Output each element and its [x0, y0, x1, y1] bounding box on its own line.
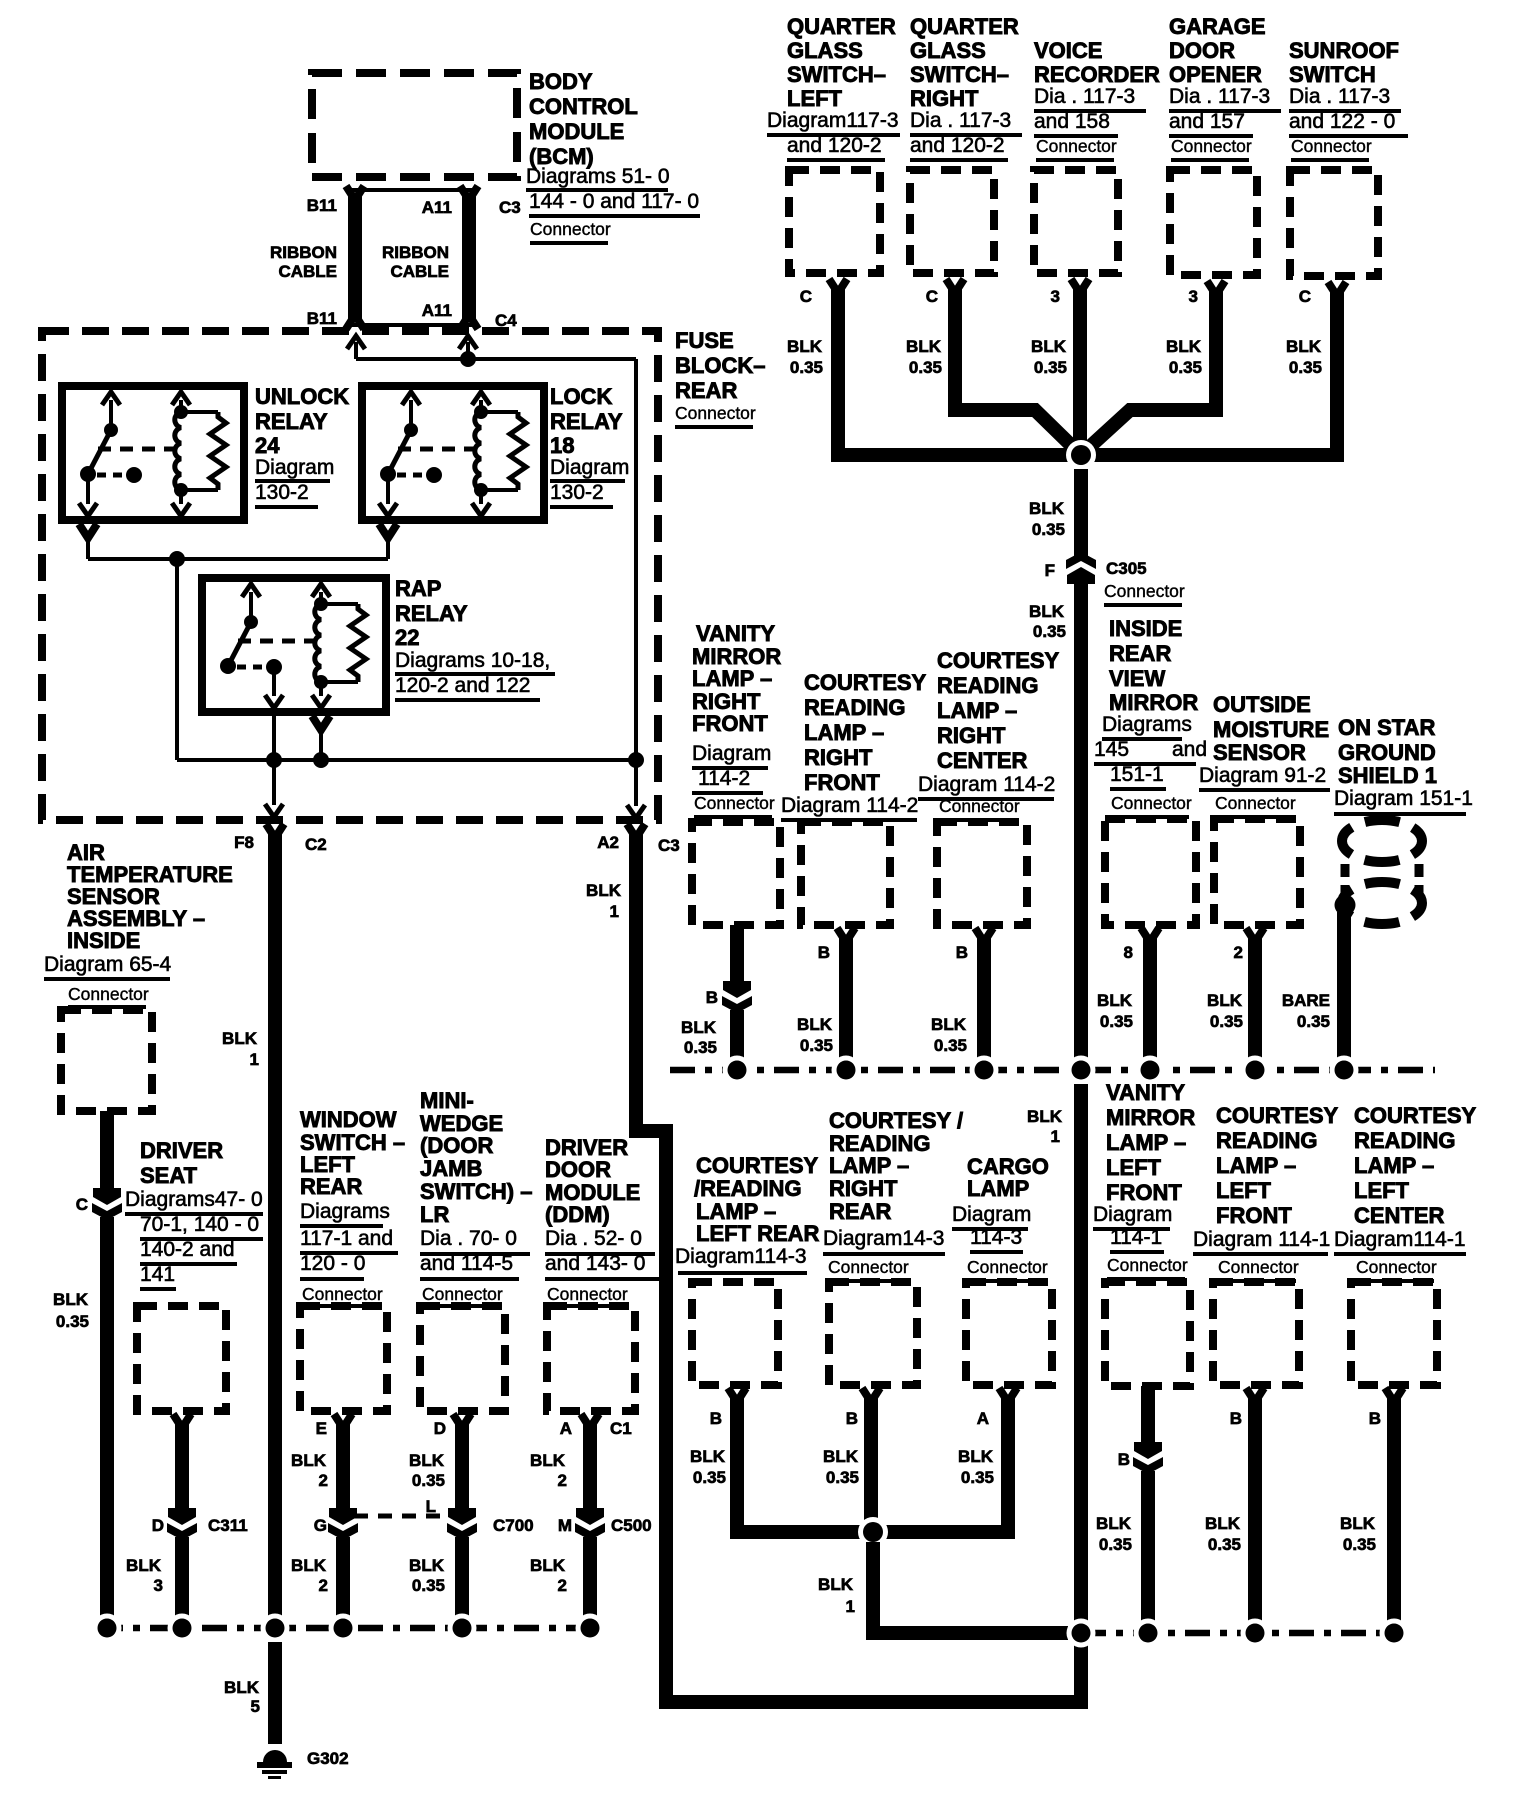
- rap relay 22: [202, 578, 386, 712]
- svg-text:COURTESY: COURTESY: [937, 648, 1060, 673]
- svg-text:Connector: Connector: [1107, 1255, 1188, 1275]
- svg-text:B: B: [846, 1409, 858, 1428]
- wire label BLK 2 (window upper): [291, 1451, 328, 1490]
- svg-text:0.35: 0.35: [1343, 1535, 1376, 1554]
- svg-text:C: C: [800, 287, 812, 306]
- svg-text:Connector: Connector: [1171, 136, 1252, 156]
- svg-text:BLK: BLK: [797, 1015, 833, 1034]
- svg-text:0.35: 0.35: [934, 1036, 967, 1055]
- svg-text:RIGHT: RIGHT: [804, 745, 873, 770]
- svg-text:2: 2: [1234, 943, 1243, 962]
- svg-text:BLK: BLK: [823, 1447, 859, 1466]
- svg-text:Connector: Connector: [694, 793, 775, 813]
- svg-text:1: 1: [610, 902, 619, 921]
- svg-text:A: A: [977, 1409, 989, 1428]
- svg-text:24: 24: [255, 433, 280, 458]
- svg-text:DOOR: DOOR: [545, 1157, 611, 1182]
- cargo lamp label: [952, 1154, 1049, 1283]
- BCM label text: [526, 69, 700, 245]
- junction node bus1 courtesy RC: [970, 1056, 999, 1085]
- wire courtesy LC to bus2: [1385, 1388, 1403, 1622]
- pin C ATS: [76, 1195, 88, 1214]
- svg-text:141: 141: [140, 1263, 175, 1286]
- svg-text:BLK: BLK: [931, 1015, 967, 1034]
- svg-text:Connector: Connector: [422, 1284, 503, 1304]
- svg-text:C: C: [926, 287, 938, 306]
- svg-text:LAMP –: LAMP –: [804, 720, 884, 745]
- svg-text:BLK: BLK: [530, 1451, 566, 1470]
- svg-text:SEAT: SEAT: [140, 1163, 198, 1188]
- wire label BLK 0.35 (mini lower): [409, 1556, 445, 1595]
- connector vanity mirror lamp right front: [692, 822, 780, 925]
- svg-text:Diagram14-3: Diagram14-3: [823, 1227, 944, 1250]
- junction node at C4 drop: [460, 351, 476, 367]
- wire mini-wedge to C700: [453, 1414, 471, 1510]
- svg-text:C: C: [76, 1195, 88, 1214]
- svg-text:BLK: BLK: [530, 1556, 566, 1575]
- fuse block label: [675, 328, 765, 429]
- svg-text:0.35: 0.35: [693, 1468, 726, 1487]
- ribbon cable (BCM to fuse block): [346, 186, 478, 329]
- svg-text:Diagram 65-4: Diagram 65-4: [44, 953, 172, 976]
- svg-text:0.35: 0.35: [1032, 520, 1065, 539]
- svg-text:G302: G302: [307, 1749, 349, 1768]
- svg-text:RIGHT: RIGHT: [829, 1176, 898, 1201]
- wire label BLK 0.35 above C305: [1029, 499, 1065, 539]
- label L: [426, 1497, 436, 1516]
- wire bus to G302: [268, 1642, 282, 1744]
- on star ground shield 1 label: [1334, 715, 1473, 816]
- svg-text:MODULE: MODULE: [529, 119, 624, 144]
- svg-text:JAMB: JAMB: [420, 1156, 482, 1181]
- svg-text:2: 2: [558, 1471, 567, 1490]
- svg-text:Diagram117-3: Diagram117-3: [767, 109, 899, 132]
- svg-text:FRONT: FRONT: [1106, 1180, 1182, 1205]
- wire label BLK 0.35 (vanity LF): [1096, 1514, 1132, 1554]
- junction node bus2-right courtesy LF: [1241, 1619, 1270, 1648]
- junction node three lamp wires: [858, 1517, 888, 1547]
- label C700: [493, 1516, 534, 1535]
- svg-text:GLASS: GLASS: [787, 38, 863, 63]
- svg-text:RIGHT: RIGHT: [937, 723, 1006, 748]
- outside moisture sensor label: [1199, 692, 1330, 819]
- ground bus 2 right (dash-dot): [1081, 1630, 1404, 1637]
- junction node bus1 main: [1067, 1056, 1096, 1085]
- svg-text:BODY: BODY: [529, 69, 593, 94]
- svg-text:MIRROR: MIRROR: [1109, 690, 1198, 715]
- wire mini-wedge to bus: [455, 1537, 469, 1620]
- svg-text:Diagram: Diagram: [1093, 1203, 1172, 1226]
- svg-text:(DDM): (DDM): [545, 1202, 610, 1227]
- svg-text:B: B: [710, 1409, 722, 1428]
- svg-text:BLK: BLK: [224, 1678, 260, 1697]
- svg-text:BLK: BLK: [1029, 499, 1065, 518]
- svg-text:/READING: /READING: [694, 1176, 802, 1201]
- svg-text:MOISTURE: MOISTURE: [1213, 717, 1329, 742]
- svg-text:G: G: [314, 1516, 327, 1535]
- junction node bus1 shield: [1330, 1056, 1359, 1085]
- connector quarter glass switch left: [789, 170, 880, 273]
- svg-text:Connector: Connector: [530, 219, 611, 239]
- ribbon cable labels: [270, 196, 521, 330]
- svg-text:COURTESY: COURTESY: [696, 1153, 819, 1178]
- wire vanity LF to inline connector B: [1141, 1386, 1155, 1444]
- svg-text:Connector: Connector: [1036, 136, 1117, 156]
- svg-text:BLK: BLK: [1207, 991, 1243, 1010]
- svg-text:0.35: 0.35: [412, 1576, 445, 1595]
- wire label BLK 0.35 (courtesy LF): [1205, 1514, 1241, 1554]
- pin B courtesy LF: [1230, 1409, 1242, 1428]
- junction node bus2-right main: [1067, 1619, 1096, 1648]
- svg-text:Connector: Connector: [1111, 793, 1192, 813]
- svg-text:F8: F8: [234, 833, 254, 852]
- pin 8 IRVM: [1124, 943, 1133, 962]
- svg-text:DRIVER: DRIVER: [140, 1138, 223, 1163]
- svg-text:RAP: RAP: [395, 576, 441, 601]
- labels A2 C3: [597, 833, 679, 855]
- svg-text:Dia . 70- 0: Dia . 70- 0: [420, 1227, 517, 1250]
- junction node rap switch leg: [266, 752, 282, 768]
- svg-text:Diagram 114-1: Diagram 114-1: [1193, 1228, 1330, 1251]
- wire label BLK 1 (main): [1027, 1107, 1063, 1146]
- svg-text:LEFT: LEFT: [787, 86, 843, 111]
- connector inside rear view mirror: [1105, 819, 1196, 925]
- svg-text:0.35: 0.35: [961, 1468, 994, 1487]
- svg-text:B11: B11: [307, 196, 337, 215]
- svg-text:BLOCK–: BLOCK–: [675, 353, 765, 378]
- svg-text:0.35: 0.35: [1099, 1535, 1132, 1554]
- svg-text:C311: C311: [208, 1516, 248, 1535]
- svg-text:and 158: and 158: [1034, 110, 1110, 133]
- svg-text:COURTESY: COURTESY: [1216, 1103, 1339, 1128]
- pin C sunroof switch: [1299, 287, 1311, 306]
- labels D / C311: [152, 1516, 248, 1535]
- svg-text:E: E: [316, 1419, 327, 1438]
- svg-text:and 143- 0: and 143- 0: [545, 1252, 645, 1275]
- svg-text:CABLE: CABLE: [278, 262, 337, 281]
- wire bus from B11/C4 to right side: [356, 359, 636, 761]
- svg-text:C2: C2: [305, 835, 327, 854]
- svg-text:FRONT: FRONT: [1216, 1203, 1292, 1228]
- wire label BLK 0.35 (IRVM): [1097, 991, 1133, 1031]
- svg-text:Diagrams: Diagrams: [300, 1200, 390, 1223]
- svg-text:DOOR: DOOR: [1169, 38, 1235, 63]
- svg-text:L: L: [426, 1497, 436, 1516]
- wire label BLK 0.35 (courtesy RF): [797, 1015, 833, 1055]
- connector courtesy/reading lamp left rear: [692, 1282, 778, 1385]
- wire courtesy LF to bus2: [1246, 1388, 1264, 1622]
- svg-text:Connector: Connector: [967, 1257, 1048, 1277]
- svg-text:0.35: 0.35: [56, 1312, 89, 1331]
- svg-text:CONTROL: CONTROL: [529, 94, 638, 119]
- connector quarter glass switch right: [910, 170, 994, 273]
- svg-text:120 - 0: 120 - 0: [300, 1252, 365, 1275]
- wire A2 exit arrow: [627, 760, 645, 818]
- svg-text:3: 3: [1189, 287, 1198, 306]
- svg-text:QUARTER: QUARTER: [910, 14, 1019, 39]
- svg-text:C305: C305: [1106, 559, 1147, 578]
- svg-text:C1: C1: [610, 1419, 632, 1438]
- ground symbol G302: [257, 1750, 292, 1779]
- wire vanity RF to bus: [730, 1010, 744, 1058]
- wire window switch to G connector: [334, 1414, 352, 1510]
- sunroof switch label: [1289, 38, 1408, 162]
- svg-text:BLK: BLK: [787, 337, 823, 356]
- wire quarter glass left to junction: [829, 279, 1081, 455]
- svg-text:8: 8: [1124, 943, 1133, 962]
- svg-text:Diagrams47- 0: Diagrams47- 0: [125, 1188, 263, 1211]
- wire vanity RF to inline connector B: [730, 925, 744, 982]
- svg-text:CABLE: CABLE: [390, 262, 449, 281]
- svg-text:Connector: Connector: [68, 984, 149, 1004]
- svg-text:INSIDE: INSIDE: [67, 928, 140, 953]
- svg-text:Connector: Connector: [302, 1284, 383, 1304]
- mini-wedge door jamb switch label: [420, 1088, 532, 1308]
- svg-text:120-2 and 122: 120-2 and 122: [395, 674, 530, 697]
- svg-text:BLK: BLK: [291, 1556, 327, 1575]
- svg-text:RELAY: RELAY: [255, 409, 328, 434]
- svg-text:A11: A11: [422, 198, 452, 217]
- junction node bus1 vanity RF: [723, 1056, 752, 1085]
- wire lamp RR to junction: [862, 1388, 880, 1532]
- svg-text:Diagram114-1: Diagram114-1: [1334, 1228, 1466, 1251]
- svg-text:BLK: BLK: [1096, 1514, 1132, 1533]
- wire driver seat to C311: [173, 1414, 191, 1510]
- wire label BLK 0.35 (QG right): [906, 337, 942, 377]
- fuse block rear dashed box: [42, 331, 658, 820]
- svg-text:D: D: [434, 1419, 446, 1438]
- wire courtesy RC to bus: [975, 928, 993, 1058]
- pin G label: [314, 1516, 327, 1535]
- svg-text:Connector: Connector: [1218, 1257, 1299, 1277]
- svg-text:D: D: [152, 1516, 164, 1535]
- svg-text:0.35: 0.35: [790, 358, 823, 377]
- junction node bus2-left DDM: [576, 1614, 605, 1643]
- svg-text:114-2: 114-2: [698, 767, 750, 790]
- wire cargo lamp to junction: [873, 1388, 1017, 1532]
- svg-text:BLK: BLK: [1340, 1514, 1376, 1533]
- wire garage door opener to junction: [1084, 281, 1225, 452]
- connector cargo lamp: [966, 1282, 1052, 1385]
- svg-text:and: and: [1172, 738, 1207, 761]
- wire label BLK 0.35 (ATS): [53, 1290, 89, 1331]
- svg-text:RIGHT: RIGHT: [910, 86, 979, 111]
- wire C305 down to ground bus 1: [1074, 582, 1088, 1058]
- svg-text:70-1, 140 - 0: 70-1, 140 - 0: [140, 1213, 259, 1236]
- svg-text:BARE: BARE: [1282, 991, 1330, 1010]
- inline connector C311: [167, 1508, 197, 1540]
- wire label BLK 2 (DDM lower): [530, 1556, 567, 1595]
- wire shield drain to bus: [1337, 912, 1351, 1058]
- svg-text:LEFT: LEFT: [1216, 1178, 1272, 1203]
- svg-text:REAR: REAR: [829, 1199, 891, 1224]
- svg-text:BLK: BLK: [586, 881, 622, 900]
- svg-text:0.35: 0.35: [1169, 358, 1202, 377]
- wire label BLK 0.35 (lamp LR): [690, 1447, 726, 1487]
- svg-text:Dia . 52- 0: Dia . 52- 0: [545, 1227, 642, 1250]
- svg-text:BLK: BLK: [818, 1575, 854, 1594]
- svg-text:0.35: 0.35: [826, 1468, 859, 1487]
- svg-text:READING: READING: [937, 673, 1038, 698]
- pin B vanity RF: [706, 988, 718, 1007]
- connector air temperature sensor: [61, 1010, 152, 1111]
- inline connector B (vanity LF): [1133, 1442, 1163, 1474]
- svg-text:BLK: BLK: [690, 1447, 726, 1466]
- svg-text:BLK: BLK: [1286, 337, 1322, 356]
- svg-text:OPENER: OPENER: [1169, 62, 1262, 87]
- svg-text:Diagrams 10-18,: Diagrams 10-18,: [395, 649, 550, 672]
- quarter glass switch left label: [767, 14, 900, 162]
- wire label BLK 0.35 (sunroof): [1286, 337, 1322, 377]
- pin B courtesy LC: [1369, 1409, 1381, 1428]
- connector driver door module: [547, 1306, 635, 1411]
- svg-text:CENTER: CENTER: [937, 748, 1028, 773]
- connector courtesy/reading lamp right rear: [829, 1282, 917, 1385]
- wire label BLK 0.35 (mini upper): [409, 1451, 445, 1490]
- svg-text:Dia . 117-3: Dia . 117-3: [1169, 85, 1270, 108]
- svg-text:BLK: BLK: [681, 1018, 717, 1037]
- body control module (BCM) box: [312, 73, 517, 177]
- wire label BARE 0.35: [1282, 991, 1330, 1031]
- svg-text:INSIDE: INSIDE: [1109, 616, 1182, 641]
- svg-text:RIBBON: RIBBON: [382, 243, 449, 262]
- svg-text:LAMP –: LAMP –: [692, 666, 772, 691]
- pin 3 garage door opener: [1189, 287, 1198, 306]
- svg-text:1: 1: [1051, 1127, 1060, 1146]
- svg-text:Diagram 114-2: Diagram 114-2: [781, 794, 918, 817]
- connector window switch left rear: [300, 1306, 387, 1411]
- svg-text:C3: C3: [658, 836, 680, 855]
- wire drop from relay bus to lower bus: [177, 559, 636, 760]
- svg-text:0.35: 0.35: [1034, 358, 1067, 377]
- svg-text:RELAY: RELAY: [395, 601, 468, 626]
- svg-text:LEFT: LEFT: [1106, 1155, 1162, 1180]
- lock relay label: [550, 384, 629, 509]
- svg-text:2: 2: [319, 1576, 328, 1595]
- svg-text:Diagram 91-2: Diagram 91-2: [1199, 764, 1326, 787]
- svg-text:Diagram: Diagram: [550, 456, 629, 479]
- wire lamp LR to junction: [728, 1388, 873, 1532]
- svg-text:B: B: [1230, 1409, 1242, 1428]
- pin D mini-wedge: [434, 1419, 446, 1438]
- svg-text:117-1 and: 117-1 and: [300, 1227, 393, 1250]
- svg-text:B: B: [1118, 1450, 1130, 1469]
- svg-text:LAMP –: LAMP –: [1106, 1130, 1186, 1155]
- svg-text:C3: C3: [499, 198, 521, 217]
- svg-text:BLK: BLK: [1027, 1107, 1063, 1126]
- svg-text:M: M: [558, 1516, 572, 1535]
- svg-text:COURTESY: COURTESY: [1354, 1103, 1477, 1128]
- courtesy reading lamp left front label: [1193, 1103, 1339, 1283]
- svg-text:READING: READING: [804, 695, 905, 720]
- wire DDM to C500: [581, 1414, 599, 1510]
- svg-text:RIBBON: RIBBON: [270, 243, 337, 262]
- svg-text:QUARTER: QUARTER: [787, 14, 896, 39]
- svg-text:Diagrams: Diagrams: [1102, 713, 1192, 736]
- wire main from bus1 down to bus2: [1074, 1084, 1088, 1622]
- svg-text:and 157: and 157: [1169, 110, 1245, 133]
- svg-text:A11: A11: [422, 301, 452, 320]
- svg-text:VANITY: VANITY: [696, 621, 775, 646]
- svg-text:BLK: BLK: [1097, 991, 1133, 1010]
- garage door opener label: [1169, 14, 1281, 162]
- svg-text:BLK: BLK: [222, 1029, 258, 1048]
- connector driver seat: [137, 1306, 226, 1411]
- svg-text:C500: C500: [611, 1516, 652, 1535]
- svg-text:and 114-5: and 114-5: [420, 1252, 513, 1275]
- connector outside moisture sensor: [1214, 819, 1300, 925]
- svg-text:Diagram: Diagram: [952, 1203, 1031, 1226]
- voice recorder label: [1034, 38, 1160, 162]
- pin E window switch: [316, 1419, 327, 1438]
- svg-text:LEFT REAR: LEFT REAR: [696, 1221, 820, 1246]
- wire label BLK 0.35 (voice): [1031, 337, 1067, 377]
- wire label BLK 0.35 (courtesy RC): [931, 1015, 967, 1055]
- svg-text:OUTSIDE: OUTSIDE: [1213, 692, 1311, 717]
- svg-text:VANITY: VANITY: [1106, 1080, 1185, 1105]
- ground bus 2 left (dash-dot): [98, 1625, 600, 1632]
- svg-text:Diagrams 51- 0: Diagrams 51- 0: [526, 165, 670, 188]
- svg-text:ON STAR: ON STAR: [1338, 715, 1435, 740]
- vanity mirror lamp left front label: [1093, 1080, 1195, 1281]
- wire label BLK 1 (F8 wire): [222, 1029, 259, 1069]
- courtesy reading lamp right front label: [781, 670, 927, 822]
- svg-text:SUNROOF: SUNROOF: [1289, 38, 1399, 63]
- wire F8/C2 from fuse block down to ground bus: [266, 824, 284, 1620]
- inline connector G: [328, 1508, 358, 1540]
- svg-text:LOCK: LOCK: [550, 384, 612, 409]
- svg-text:VOICE: VOICE: [1034, 38, 1102, 63]
- svg-text:2: 2: [558, 1576, 567, 1595]
- unlock relay 24: [62, 386, 244, 520]
- junction node on relay output bus: [169, 551, 185, 567]
- wire ATS to bus: [100, 1217, 114, 1620]
- svg-text:B: B: [818, 943, 830, 962]
- svg-text:COURTESY /: COURTESY /: [829, 1108, 963, 1133]
- svg-text:GARAGE: GARAGE: [1169, 14, 1266, 39]
- label F / C305: [1045, 559, 1185, 607]
- junction node bus2-left mini-wedge: [448, 1614, 477, 1643]
- courtesy reading lamp left center label: [1334, 1103, 1477, 1283]
- svg-text:WINDOW: WINDOW: [300, 1107, 397, 1132]
- svg-text:Connector: Connector: [675, 403, 756, 423]
- svg-text:151-1: 151-1: [1110, 763, 1164, 786]
- svg-text:0.35: 0.35: [1100, 1012, 1133, 1031]
- pin B courtesy RF: [818, 943, 830, 962]
- wire label BLK 2 (DDM upper): [530, 1451, 567, 1490]
- junction node bus2-left driver seat: [168, 1614, 197, 1643]
- svg-text:MIRROR: MIRROR: [1106, 1105, 1195, 1130]
- svg-text:130-2: 130-2: [255, 481, 309, 504]
- svg-text:Connector: Connector: [939, 796, 1020, 816]
- connector mini-wedge switch: [420, 1306, 505, 1411]
- quarter glass switch right label: [910, 14, 1022, 162]
- wire label BLK 0.35 (vanity RF): [681, 1018, 717, 1057]
- courtesy reading lamp right center label: [918, 648, 1060, 822]
- svg-text:3: 3: [1051, 287, 1060, 306]
- wire label BLK 0.35 (courtesy LC): [1340, 1514, 1376, 1554]
- svg-text:BLK: BLK: [906, 337, 942, 356]
- svg-text:114-3: 114-3: [970, 1226, 1022, 1249]
- svg-text:REAR: REAR: [1109, 641, 1171, 666]
- wire rap relay switch leg to F8: [265, 712, 283, 817]
- svg-text:0.35: 0.35: [1208, 1535, 1241, 1554]
- svg-text:MINI-: MINI-: [420, 1088, 474, 1113]
- svg-text:REAR: REAR: [675, 378, 737, 403]
- wire courtesy RF to bus: [837, 928, 855, 1058]
- wire B11 entry arrow: [347, 336, 365, 359]
- svg-text:and 122 - 0: and 122 - 0: [1289, 110, 1395, 133]
